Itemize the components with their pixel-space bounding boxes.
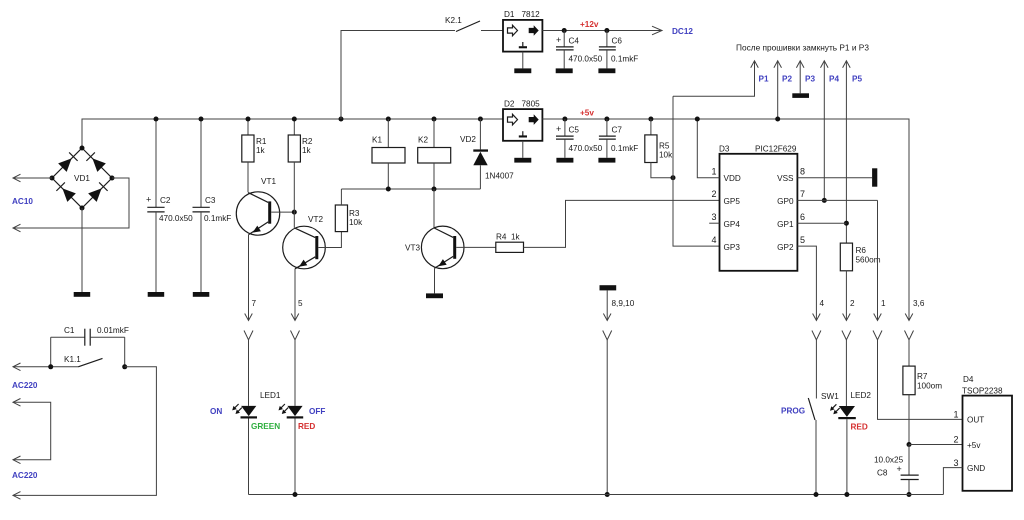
svg-text:470.0x50: 470.0x50: [569, 144, 603, 153]
wire GND pin to bus: [943, 468, 962, 495]
IC D3 PIC12F629: [719, 145, 797, 271]
svg-text:R1: R1: [256, 137, 267, 146]
svg-text:RED: RED: [298, 422, 315, 431]
junction +5v pin: [907, 442, 912, 447]
svg-text:5: 5: [800, 235, 805, 245]
VSS terminal bar: [872, 168, 877, 186]
svg-text:TSOP2238: TSOP2238: [962, 387, 1003, 396]
arrow line 5: [291, 314, 299, 321]
resistor R6: [840, 243, 880, 271]
wire chevron to LED1 green: [248, 340, 250, 406]
svg-text:R4: R4: [496, 233, 507, 242]
capacitor C6: [599, 28, 638, 68]
svg-text:PROG: PROG: [781, 407, 805, 416]
svg-text:560om: 560om: [856, 256, 881, 265]
arrow AC220 line 3: [13, 456, 21, 464]
svg-text:LED2: LED2: [851, 391, 872, 400]
svg-text:D3: D3: [719, 145, 730, 154]
svg-text:C5: C5: [569, 126, 580, 135]
connector P3: [792, 61, 815, 98]
resistor R3: [335, 205, 363, 232]
svg-text:2: 2: [711, 189, 716, 199]
junction node R2/VT1 base: [292, 210, 297, 215]
junction C8 on bus: [907, 492, 912, 497]
wire GP1: [797, 222, 846, 224]
LED1 green diode: [232, 404, 257, 419]
svg-text:K2.1: K2.1: [445, 16, 462, 25]
svg-text:3: 3: [711, 212, 716, 222]
svg-text:GREEN: GREEN: [251, 422, 280, 431]
svg-text:C3: C3: [205, 196, 216, 205]
svg-text:1N4007: 1N4007: [485, 172, 514, 181]
wire chevron to LED1 red: [294, 340, 296, 406]
svg-text:VSS: VSS: [777, 174, 794, 183]
junction bus/K2.1 riser: [339, 117, 344, 122]
wire K1.1 to right leg: [13, 367, 156, 496]
svg-text:+: +: [556, 124, 561, 134]
wire to VT3 collector: [433, 189, 435, 228]
wire C1 left leg: [50, 337, 52, 367]
svg-text:VD2: VD2: [460, 135, 476, 144]
svg-text:D2: D2: [504, 100, 515, 109]
svg-text:+: +: [897, 464, 902, 474]
LED2 diode: [830, 404, 856, 419]
ground: [74, 292, 91, 297]
IC D4 TSOP2238: [962, 375, 1012, 491]
junction R5/GP3 riser: [671, 175, 676, 180]
wire C1 right leg: [124, 337, 126, 367]
wire VT2 emitter down: [294, 269, 296, 321]
svg-text:3,6: 3,6: [913, 299, 925, 308]
wire R6 down: [845, 271, 847, 321]
svg-text:+12v: +12v: [580, 20, 599, 29]
transistor VT2: [283, 215, 326, 269]
relay K1: [372, 117, 405, 190]
wire chevron to OUT: [878, 340, 963, 420]
wire R4 to GP5: [524, 200, 720, 247]
svg-text:7: 7: [252, 299, 257, 308]
svg-text:C6: C6: [612, 37, 623, 46]
capacitor C2: [146, 117, 193, 293]
wire R3 top to relay line: [340, 189, 342, 205]
transistor VT1: [236, 177, 279, 235]
svg-text:470.0x50: 470.0x50: [569, 55, 603, 64]
top power bus wire: [82, 119, 503, 148]
svg-text:1k: 1k: [256, 146, 266, 155]
svg-text:+: +: [146, 195, 151, 205]
capacitor C3: [193, 117, 232, 293]
svg-text:GP3: GP3: [724, 243, 741, 252]
svg-text:1: 1: [711, 167, 716, 177]
junction 8,9,10 on bus: [605, 492, 610, 497]
wire GP0: [797, 199, 877, 201]
connector chevron line 2: [842, 331, 851, 340]
svg-text:DC12: DC12: [672, 27, 693, 36]
wire AC input lower: [13, 178, 129, 228]
svg-text:5: 5: [298, 299, 303, 308]
wire AC220 line 1: [13, 366, 78, 368]
svg-text:C8: C8: [877, 469, 888, 478]
arrow AC220 line 1: [13, 363, 21, 371]
svg-text:VT3: VT3: [405, 244, 420, 253]
ground: [193, 292, 210, 297]
arrow line 3,6: [905, 314, 913, 321]
regulator D1 7812: [503, 10, 542, 52]
ground: [514, 68, 531, 73]
ground: [426, 293, 443, 298]
bridge rectifier VD1: [50, 146, 115, 211]
switch K2.1: [456, 21, 480, 32]
svg-text:+5v: +5v: [580, 109, 594, 118]
arrow AC upper: [13, 174, 21, 182]
connector chevron line 1: [873, 331, 882, 340]
svg-text:P3: P3: [805, 75, 815, 84]
wire 8,9,10 to bus: [606, 340, 608, 495]
arrow line 1: [874, 314, 882, 321]
wire +5v pin to TSOP: [909, 444, 963, 446]
svg-text:P1: P1: [759, 75, 769, 84]
wire chevron to SW1: [815, 340, 817, 399]
svg-text:VD1: VD1: [74, 174, 90, 183]
wire VT1 base to node: [271, 211, 294, 213]
arrow line 4: [813, 314, 821, 321]
resistor R4: [496, 233, 524, 253]
svg-text:OUT: OUT: [967, 416, 984, 425]
svg-text:7812: 7812: [522, 10, 541, 19]
svg-text:GP1: GP1: [777, 220, 794, 229]
svg-text:D1: D1: [504, 10, 515, 19]
wire GP4 stub: [709, 222, 719, 224]
ground: [556, 158, 573, 163]
svg-text:10k: 10k: [349, 218, 363, 227]
wire GP0 corner down: [877, 200, 879, 320]
LED1 red diode: [279, 404, 304, 419]
wire to C8: [908, 445, 910, 475]
svg-text:7805: 7805: [522, 100, 541, 109]
transistor VT3: [405, 226, 464, 269]
resistor R1: [242, 117, 267, 163]
wire GP2: [797, 246, 816, 320]
svg-text:GP2: GP2: [777, 243, 794, 252]
wire AC220 line 2: [13, 402, 51, 460]
svg-text:0.01mkF: 0.01mkF: [97, 326, 129, 335]
capacitor C8: [874, 456, 919, 495]
svg-text:C1: C1: [64, 326, 75, 335]
svg-text:8: 8: [800, 167, 805, 177]
svg-text:8,9,10: 8,9,10: [612, 299, 635, 308]
svg-text:0.1mkF: 0.1mkF: [204, 214, 231, 223]
resistor R7: [903, 366, 942, 395]
wire riser to K2.1: [341, 31, 455, 120]
svg-text:P4: P4: [829, 75, 839, 84]
svg-text:LED1: LED1: [260, 391, 281, 400]
svg-text:P5: P5: [852, 75, 862, 84]
junction C1/K1.1 left: [48, 364, 53, 369]
ground: [598, 158, 615, 163]
svg-text:R6: R6: [856, 246, 867, 255]
arrow AC lower: [13, 224, 21, 232]
capacitor C7: [599, 117, 638, 158]
connector P4: [821, 61, 840, 203]
svg-text:470.0x50: 470.0x50: [159, 214, 193, 223]
svg-text:4: 4: [711, 235, 716, 245]
svg-text:C2: C2: [160, 196, 171, 205]
svg-text:GP0: GP0: [777, 197, 794, 206]
svg-text:AC220: AC220: [12, 471, 38, 480]
junction red LED on bus: [293, 492, 298, 497]
svg-text:AC10: AC10: [12, 197, 33, 206]
svg-text:R7: R7: [917, 372, 928, 381]
svg-text:AC220: AC220: [12, 381, 38, 390]
ground: [514, 158, 531, 163]
svg-text:K1.1: K1.1: [64, 355, 81, 364]
junction C1/K1.1 right: [122, 364, 127, 369]
wire K2.1 to D1: [481, 30, 503, 32]
connector chevron line 7: [244, 331, 253, 340]
capacitor C1: [51, 326, 129, 346]
svg-text:C4: C4: [569, 37, 580, 46]
wire chevron to R7: [908, 340, 910, 366]
bottom bus wire: [249, 494, 944, 496]
wire SW1 to bus: [815, 420, 817, 495]
svg-text:D4: D4: [963, 375, 974, 384]
connector chevron line 5: [291, 331, 300, 340]
wire D2 ground leg: [522, 141, 524, 158]
junction K2 bottom: [432, 187, 437, 192]
svg-text:GP5: GP5: [724, 197, 741, 206]
svg-text:K1: K1: [372, 136, 382, 145]
diode VD2: [460, 117, 514, 190]
svg-text:OFF: OFF: [309, 407, 325, 416]
wire VT1 emitter down: [248, 235, 250, 321]
svg-text:GP4: GP4: [724, 220, 741, 229]
ground: [556, 68, 573, 73]
arrow line 7: [245, 314, 253, 321]
wire D1 output: [542, 30, 662, 32]
wire LED2 to bus: [846, 419, 848, 494]
svg-text:100om: 100om: [917, 382, 942, 391]
svg-text:P2: P2: [782, 75, 792, 84]
junction SW1 on bus: [814, 492, 819, 497]
wire D2 output +5v bus: [542, 119, 909, 321]
ground: [148, 292, 165, 297]
svg-text:1k: 1k: [511, 233, 521, 242]
svg-text:GND: GND: [967, 464, 985, 473]
svg-text:7: 7: [800, 189, 805, 199]
wire relay common line: [341, 188, 480, 190]
wire VT3 emitter to ground: [434, 268, 436, 293]
wire VT3 base to R4: [456, 246, 496, 248]
svg-text:+: +: [556, 35, 561, 45]
wire VSS to bar: [797, 177, 872, 179]
svg-text:K2: K2: [418, 136, 428, 145]
wire AC input upper: [13, 177, 52, 179]
capacitor C5: [556, 117, 603, 158]
svg-text:6: 6: [800, 212, 805, 222]
arrow DC12: [652, 26, 662, 35]
svg-text:4: 4: [820, 299, 825, 308]
svg-text:R3: R3: [349, 209, 360, 218]
svg-text:1k: 1k: [302, 146, 312, 155]
svg-text:2: 2: [953, 435, 958, 445]
svg-text:3: 3: [953, 458, 958, 468]
ground: [598, 68, 615, 73]
svg-text:VT2: VT2: [308, 215, 323, 224]
svg-text:ON: ON: [210, 407, 222, 416]
wire R7 to +5v pin: [908, 395, 910, 445]
wire VT2 base to R3: [318, 232, 341, 248]
wire bridge bottom to ground: [81, 208, 83, 292]
wire chevron to LED2: [845, 340, 847, 406]
connector P2: [774, 61, 793, 122]
svg-text:R2: R2: [302, 137, 313, 146]
wire green LED to bottom bus: [248, 419, 250, 495]
arrow line 2: [843, 314, 851, 321]
svg-text:R5: R5: [659, 142, 670, 151]
junction LED2 on bus: [844, 492, 849, 497]
svg-text:SW1: SW1: [821, 392, 839, 401]
wire R2 to node to VT2 collector: [293, 162, 295, 228]
svg-text:C7: C7: [612, 126, 623, 135]
resistor R5: [645, 117, 673, 163]
svg-text:0.1mkF: 0.1mkF: [611, 55, 638, 64]
arrow AC220 line 4: [13, 492, 21, 500]
svg-text:0.1mkF: 0.1mkF: [611, 144, 638, 153]
arrow AC220 line 2: [13, 399, 21, 407]
switch K1.1: [78, 358, 102, 366]
svg-text:VT1: VT1: [261, 177, 276, 186]
regulator D2 7805: [503, 100, 542, 141]
wire red LED to bottom bus: [294, 419, 296, 495]
junction K1 bottom: [386, 187, 391, 192]
svg-text:2: 2: [850, 299, 855, 308]
svg-text:1: 1: [953, 410, 958, 420]
connector P5: [843, 61, 863, 243]
connector P1: [673, 61, 769, 96]
switch SW1: [808, 398, 815, 420]
wire GP3 riser: [673, 96, 720, 246]
svg-text:VDD: VDD: [724, 174, 741, 183]
svg-text:+5v: +5v: [967, 441, 981, 450]
wire VDD to +5v bus: [697, 119, 719, 178]
wire R1 to VT1 collector: [247, 162, 249, 192]
svg-text:RED: RED: [851, 423, 868, 432]
relay K2: [418, 117, 451, 190]
svg-text:1: 1: [881, 299, 886, 308]
wire D1 ground leg: [522, 52, 524, 69]
wire R5 bottom to P1 riser: [651, 163, 673, 178]
svg-text:PIC12F629: PIC12F629: [755, 145, 797, 154]
connector chevron line 3,6: [905, 331, 914, 340]
svg-text:После прошивки замкнуть Р1 и Р: После прошивки замкнуть Р1 и Р3: [736, 43, 869, 53]
capacitor C4: [556, 28, 603, 68]
svg-text:10k: 10k: [659, 151, 673, 160]
junction VDD riser on bus: [695, 117, 700, 122]
connector 8,9,10: [600, 285, 635, 340]
connector chevron line 4: [812, 331, 821, 340]
resistor R2: [288, 117, 313, 163]
